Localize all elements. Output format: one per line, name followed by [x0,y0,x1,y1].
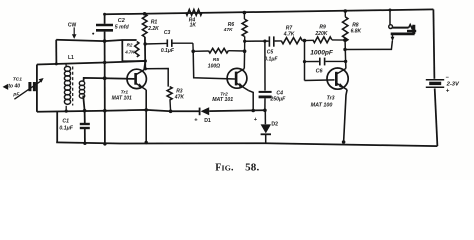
resistor R5 [193,50,208,52]
svg-text:2.2K: 2.2K [147,26,159,32]
battery B1 2-3V [426,79,444,81]
transistor TR2 [227,68,248,90]
capacitor C5 [268,36,270,46]
wire x122 drop [121,40,123,61]
wire C1 bottom lead [84,129,86,143]
svg-text:4.7K: 4.7K [283,32,295,38]
svg-text:R7: R7 [286,25,293,31]
resistor R9 [305,39,313,41]
svg-text:R8: R8 [352,22,359,28]
wire y61 [122,60,145,62]
svg-text:100Ω: 100Ω [208,63,220,69]
wire TR3 base [305,79,335,82]
wire C6 left vertical [304,41,306,81]
svg-text:C3: C3 [164,30,171,36]
resistor R6 [243,13,245,20]
resistor R8 [344,11,346,17]
junction C4-D2 node [263,109,267,113]
wire C5 feed [245,40,269,42]
wire jack left terminal [389,10,391,25]
svg-text:0.1μF: 0.1μF [161,48,175,54]
capacitor C4 [259,91,272,93]
svg-text:D2: D2 [271,122,278,128]
junction node B (C3/R5/TR2 base) [191,50,195,54]
svg-text:250μF: 250μF [269,96,286,102]
inductor L2 secondary [79,81,84,86]
svg-text:C1: C1 [62,118,69,124]
junction TR1 base wire node [103,76,107,80]
wire jack lower to collector node [345,41,392,50]
wire TR3 emitter down [344,90,348,142]
svg-text:MAT 101: MAT 101 [112,95,132,101]
svg-text:L1: L1 [68,55,74,61]
svg-text:0.1μF: 0.1μF [264,56,278,62]
svg-text:0.1μF: 0.1μF [59,125,73,131]
wire riser to tank top [55,40,57,64]
scan speck [92,33,94,35]
junction TR2 collector node [243,49,247,53]
inductor L1 primary [64,66,70,71]
wire tank left rail [36,65,38,112]
svg-text:5 mfd: 5 mfd [115,25,130,31]
junction TR1 collector node [144,59,147,62]
wire L1 bottom stub [65,106,67,111]
junction R1-C3 node [143,42,146,45]
wire C3 to node B [192,43,194,51]
capacitor C6 [305,61,319,63]
wire tank bottom [37,110,199,112]
wiper arrow CW [73,27,75,35]
jack J1 [389,25,417,42]
junction R7-R9 node [303,39,307,43]
junction jack terminal at rail [389,9,392,12]
wire battery right vertical (top) [433,9,434,78]
svg-text:D1: D1 [204,118,211,124]
wire TR3 collector up [345,61,347,68]
diode D2 [264,110,266,124]
junction R1 top at rail [143,12,147,16]
junction tank bottom node [103,109,107,113]
svg-text:+: + [254,117,258,123]
junction C1 at ground rail [83,142,86,145]
resistor R4 [186,10,202,16]
antenna arrowhead [3,84,9,90]
junction x105 at ground rail [103,142,106,145]
trimmer arrow TC1 [14,81,41,99]
junction R8 top at rail [344,9,348,13]
capacitor C3 [145,42,167,45]
junction R9 right node [343,38,347,42]
svg-text:+: + [446,88,450,94]
wire C2 bottom lead [104,32,106,42]
wire TR2 collector up [243,51,245,68]
wire CW horizontal [56,40,136,41]
svg-text:C2: C2 [118,18,125,24]
wire C2 top lead [104,14,106,23]
junction C2 top at rail [103,13,106,16]
junction TR1 collector R3 branch [144,67,147,70]
junction C2 bottom node [103,39,107,43]
svg-text:CW: CW [68,22,77,28]
transistor TR3 [327,68,348,90]
capacitor C1 [80,123,90,125]
svg-text:TC1: TC1 [13,77,23,83]
svg-text:47K: 47K [223,27,233,33]
svg-text:MAT 100: MAT 100 [311,102,333,108]
junction C6 right / TR3 collector node [344,60,347,63]
junction TR1 emitter at ground rail [145,141,148,144]
junction TR1 emitter node [144,108,148,112]
junction R6 top at rail [243,11,247,15]
junction riser at tank top [55,62,58,65]
wire L1 top lead [65,63,67,67]
svg-text:C5: C5 [267,49,274,55]
resistor R3 [167,87,172,100]
wire bottom ground rail [56,142,437,146]
svg-text:47K: 47K [174,94,185,100]
svg-text:pF: pF [12,91,20,97]
junction R3 bottom node [169,110,173,114]
wire ground drop x57 [56,112,58,142]
svg-text:6.8K: 6.8K [351,29,362,35]
wire C1 top lead [84,111,86,123]
svg-text:MAT 101: MAT 101 [212,97,233,103]
junction C6 left node [303,60,306,63]
inductor L1 core (dashed) [72,67,74,106]
diode D1 [199,108,201,116]
resistor R1 [142,14,147,37]
wire secondary bottom lead [83,96,84,111]
wire main vertical x105 [104,41,106,144]
svg-text:R9: R9 [319,25,326,31]
svg-text:R2: R2 [127,42,133,47]
resistor R7 [281,38,302,44]
junction C4 top at C5 wire [263,40,266,43]
wire TR1 collector to R3 [146,69,169,87]
junction L1 bottom node [65,110,68,113]
wire tank top [37,61,145,65]
wire top supply rail [105,9,434,14]
wire C4 riser [264,41,266,91]
wire TR2 emitter down [248,90,253,110]
junction TR2 emitter node [251,109,255,113]
svg-text:R5: R5 [213,57,220,63]
junction TR3 emitter at ground rail [342,140,346,144]
transistor TR1 [127,69,146,90]
wire battery right vertical (bottom) [435,88,438,146]
svg-text:2-3V: 2-3V [446,82,460,88]
svg-text:R1: R1 [151,19,158,25]
svg-text:+: + [194,117,198,123]
junction tank top node [103,61,106,64]
svg-text:1K: 1K [190,23,197,29]
wire TR1 emitter down [145,90,147,143]
svg-text:to 40: to 40 [8,84,20,90]
junction R6-C5 branch node [243,40,246,43]
svg-text:FIG.58.: FIG.58. [215,161,259,173]
svg-text:1000pF: 1000pF [310,49,334,56]
wire R3 bottom [169,100,172,111]
svg-text:4.7K: 4.7K [124,49,135,54]
junction jack output node [343,48,346,51]
trimmer capacitor TC1 [28,82,31,91]
wire D1 to TR2 emitter [209,109,265,112]
wire C4 bottom lead [264,98,266,110]
svg-text:−: − [446,75,450,81]
svg-text:Tr3: Tr3 [327,95,335,101]
wire TR1 collector up [144,61,145,70]
wire secondary top to TR1 base [84,78,135,81]
svg-text:220K: 220K [314,31,327,37]
svg-text:C6: C6 [316,69,324,75]
wire R1 bottom [144,37,146,69]
resistor R2 [135,42,139,57]
wire node B to TR2 base [193,51,235,79]
capacitor C2 [96,24,113,27]
junction L2-C1 node [83,109,87,113]
